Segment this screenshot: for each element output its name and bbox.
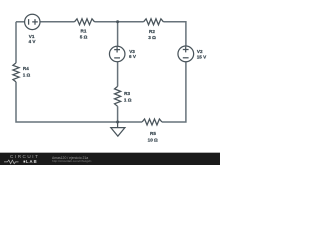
wire V3 bottom to R3: [117, 62, 119, 87]
voltage source V1 circle: [25, 14, 40, 29]
node A junction dot: [116, 20, 119, 23]
wire node A down to V3: [117, 22, 119, 47]
resistor R5 body: [142, 119, 162, 125]
footer credit line 1: [52, 157, 88, 160]
svg-text:R2: R2: [149, 29, 155, 34]
resistor R3 body: [115, 86, 121, 106]
V3 minus mark: [114, 57, 120, 59]
V1 minus mark: [28, 19, 30, 25]
wire R2 to top-right corner down to V2: [163, 22, 186, 46]
footer credit line 2 url: [52, 160, 91, 163]
svg-text:3 Ω: 3 Ω: [148, 35, 156, 40]
svg-text:R3: R3: [124, 91, 130, 96]
footer black bar: [0, 153, 220, 165]
voltage source V2 circle: [178, 46, 194, 62]
svg-text:6 V: 6 V: [129, 54, 137, 59]
svg-text:15 V: 15 V: [197, 54, 207, 59]
wire top-left corner to V1: [16, 21, 25, 23]
node B junction dot: [116, 121, 119, 124]
wire R5 to node B and on to bottom-left corner: [16, 82, 142, 122]
resistor R1 body: [75, 19, 95, 25]
svg-text:10 Ω: 10 Ω: [148, 137, 158, 142]
CircuitLab logo word CIRCUIT: [10, 155, 39, 160]
resistor R4 body: [13, 63, 19, 82]
svg-text:R4: R4: [23, 66, 29, 71]
V1 plus mark: [32, 19, 38, 25]
wire R4 top to top-left corner: [15, 22, 17, 63]
logo resistor zigzag: [4, 160, 19, 164]
V3 plus mark: [114, 47, 120, 53]
wire V2 bottom to bottom-right corner to R5: [162, 62, 186, 122]
svg-text:1 Ω: 1 Ω: [23, 72, 31, 77]
V2 minus mark: [183, 57, 189, 59]
V2 plus mark: [183, 47, 189, 53]
svg-text:R1: R1: [81, 29, 87, 34]
voltage source V3 circle: [109, 46, 125, 62]
wire R3 bottom to node B: [117, 106, 119, 122]
footer drop shadow: [0, 152, 220, 153]
ground symbol: [111, 122, 125, 136]
resistor R2 body: [144, 19, 164, 25]
wire V1 to R1: [40, 21, 75, 23]
wire R1 to node A and on to R2: [95, 21, 144, 23]
svg-text:1 Ω: 1 Ω: [124, 97, 132, 102]
CircuitLab logo word LAB: [26, 160, 38, 164]
svg-text:R5: R5: [150, 131, 156, 136]
svg-text:5 Ω: 5 Ω: [80, 35, 88, 40]
svg-text:4 V: 4 V: [29, 39, 37, 44]
